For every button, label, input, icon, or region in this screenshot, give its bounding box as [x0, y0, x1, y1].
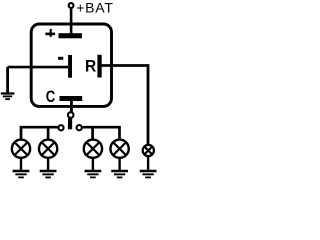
svg-text:C: C [46, 88, 56, 106]
svg-text:R: R [85, 58, 96, 76]
svg-text:+BAT: +BAT [76, 0, 114, 15]
